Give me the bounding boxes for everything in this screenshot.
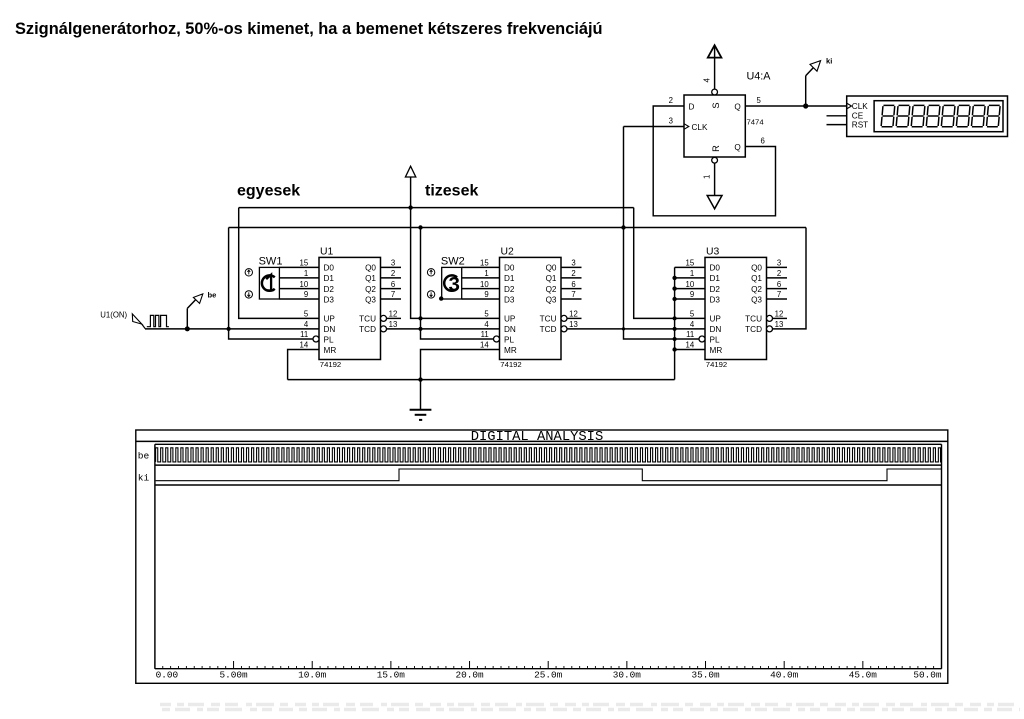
svg-text:Q: Q (734, 102, 740, 111)
svg-text:Q3: Q3 (365, 295, 376, 304)
svg-text:Q0: Q0 (546, 264, 557, 273)
svg-text:4: 4 (484, 320, 489, 329)
svg-text:U4:A: U4:A (747, 71, 772, 83)
svg-text:12: 12 (569, 310, 578, 319)
svg-text:35.0m: 35.0m (691, 669, 720, 680)
svg-text:3: 3 (448, 273, 459, 296)
svg-text:3: 3 (777, 259, 781, 268)
svg-text:11: 11 (481, 330, 489, 339)
svg-text:10.0m: 10.0m (298, 669, 327, 680)
svg-text:13: 13 (389, 320, 398, 329)
svg-text:15: 15 (300, 259, 309, 268)
svg-text:MR: MR (710, 346, 723, 355)
svg-text:D2: D2 (324, 285, 335, 294)
svg-text:TCU: TCU (359, 315, 376, 324)
svg-text:DN: DN (710, 325, 722, 334)
svg-text:74192: 74192 (500, 360, 521, 369)
svg-text:6: 6 (777, 280, 781, 289)
svg-text:2: 2 (777, 269, 781, 278)
svg-text:D0: D0 (504, 264, 515, 273)
svg-text:ki: ki (138, 473, 150, 484)
svg-text:14: 14 (480, 341, 489, 350)
svg-text:U2: U2 (501, 247, 515, 258)
svg-text:15: 15 (480, 259, 489, 268)
svg-text:PL: PL (710, 335, 720, 344)
svg-text:3: 3 (391, 259, 395, 268)
svg-text:D3: D3 (324, 295, 335, 304)
svg-text:5.00m: 5.00m (219, 669, 248, 680)
svg-text:RST: RST (852, 121, 868, 130)
svg-text:2: 2 (571, 269, 575, 278)
svg-text:11: 11 (300, 330, 308, 339)
svg-text:14: 14 (300, 341, 309, 350)
svg-text:4: 4 (690, 320, 695, 329)
svg-text:PL: PL (504, 335, 514, 344)
svg-text:D: D (689, 102, 695, 111)
svg-text:D1: D1 (710, 274, 721, 283)
svg-text:ki: ki (826, 56, 832, 65)
svg-text:0.00: 0.00 (156, 669, 179, 680)
svg-text:7: 7 (391, 290, 395, 299)
svg-text:10: 10 (300, 280, 309, 289)
svg-text:CLK: CLK (852, 102, 868, 111)
svg-text:CLK: CLK (692, 123, 708, 132)
svg-text:5: 5 (757, 96, 762, 105)
svg-text:D0: D0 (324, 264, 335, 273)
svg-text:UP: UP (324, 315, 336, 324)
svg-text:SW2: SW2 (441, 256, 465, 268)
svg-text:Q0: Q0 (365, 264, 376, 273)
svg-text:2: 2 (391, 269, 395, 278)
svg-text:TCD: TCD (359, 325, 376, 334)
svg-text:S: S (711, 102, 721, 108)
svg-text:CE: CE (852, 112, 864, 121)
svg-text:2: 2 (669, 96, 673, 105)
svg-text:50.0m: 50.0m (913, 669, 942, 680)
svg-text:40.0m: 40.0m (770, 669, 799, 680)
svg-text:3: 3 (669, 117, 673, 126)
svg-text:9: 9 (690, 290, 694, 299)
svg-text:U1(ON): U1(ON) (100, 310, 127, 319)
svg-text:1: 1 (304, 269, 308, 278)
svg-text:D2: D2 (504, 285, 515, 294)
svg-text:15.0m: 15.0m (377, 669, 406, 680)
svg-text:3: 3 (571, 259, 575, 268)
svg-text:D3: D3 (504, 295, 515, 304)
svg-text:Szignálgenerátorhoz, 50%-os ki: Szignálgenerátorhoz, 50%-os kimenet, ha … (15, 20, 603, 38)
svg-text:egyesek: egyesek (237, 182, 300, 199)
svg-text:D2: D2 (710, 285, 721, 294)
svg-text:TCU: TCU (540, 315, 557, 324)
svg-text:9: 9 (304, 290, 308, 299)
svg-text:5: 5 (304, 310, 309, 319)
svg-text:13: 13 (775, 320, 784, 329)
svg-text:UP: UP (710, 315, 722, 324)
svg-text:be: be (138, 451, 150, 462)
svg-text:Q3: Q3 (546, 295, 557, 304)
svg-text:D3: D3 (710, 295, 721, 304)
svg-text:74192: 74192 (706, 360, 727, 369)
svg-text:U3: U3 (706, 247, 720, 258)
svg-text:6: 6 (761, 137, 765, 146)
svg-text:Q: Q (734, 143, 740, 152)
svg-text:Q2: Q2 (751, 285, 762, 294)
svg-text:R: R (711, 145, 721, 152)
svg-text:DN: DN (504, 325, 516, 334)
svg-text:6: 6 (391, 280, 395, 289)
svg-text:7: 7 (777, 290, 781, 299)
svg-text:D1: D1 (504, 274, 515, 283)
svg-text:11: 11 (686, 330, 694, 339)
svg-text:be: be (208, 291, 217, 300)
svg-text:TCD: TCD (745, 325, 762, 334)
svg-text:12: 12 (389, 310, 398, 319)
svg-text:74192: 74192 (320, 360, 341, 369)
svg-text:D0: D0 (710, 264, 721, 273)
svg-text:30.0m: 30.0m (613, 669, 642, 680)
svg-text:PL: PL (324, 335, 334, 344)
svg-text:Q1: Q1 (365, 274, 376, 283)
svg-text:TCD: TCD (540, 325, 557, 334)
svg-text:10: 10 (480, 280, 489, 289)
svg-text:tizesek: tizesek (425, 182, 478, 199)
svg-text:13: 13 (569, 320, 578, 329)
svg-text:6: 6 (571, 280, 575, 289)
svg-text:Q2: Q2 (365, 285, 376, 294)
svg-text:DIGITAL ANALYSIS: DIGITAL ANALYSIS (471, 430, 603, 445)
svg-text:1: 1 (703, 175, 712, 179)
svg-text:4: 4 (703, 78, 712, 83)
svg-text:4: 4 (304, 320, 309, 329)
svg-text:9: 9 (484, 290, 488, 299)
svg-text:20.0m: 20.0m (455, 669, 484, 680)
svg-text:Q0: Q0 (751, 264, 762, 273)
svg-text:1: 1 (484, 269, 488, 278)
svg-text:Q1: Q1 (546, 274, 557, 283)
svg-text:SW1: SW1 (259, 256, 283, 268)
svg-text:MR: MR (324, 346, 337, 355)
svg-text:5: 5 (484, 310, 489, 319)
svg-text:TCU: TCU (745, 315, 762, 324)
svg-text:12: 12 (775, 310, 784, 319)
svg-text:U1: U1 (320, 247, 334, 258)
svg-text:14: 14 (686, 341, 695, 350)
svg-text:25.0m: 25.0m (534, 669, 563, 680)
svg-text:Q2: Q2 (546, 285, 557, 294)
svg-text:10: 10 (686, 280, 695, 289)
svg-text:Q1: Q1 (751, 274, 762, 283)
svg-text:7474: 7474 (747, 118, 765, 127)
svg-text:Q3: Q3 (751, 295, 762, 304)
svg-text:MR: MR (504, 346, 517, 355)
svg-text:UP: UP (504, 315, 516, 324)
svg-text:DN: DN (324, 325, 336, 334)
svg-text:1: 1 (690, 269, 694, 278)
svg-text:D1: D1 (324, 274, 335, 283)
svg-text:7: 7 (571, 290, 575, 299)
svg-text:45.0m: 45.0m (849, 669, 878, 680)
svg-text:5: 5 (690, 310, 695, 319)
svg-text:15: 15 (686, 259, 695, 268)
